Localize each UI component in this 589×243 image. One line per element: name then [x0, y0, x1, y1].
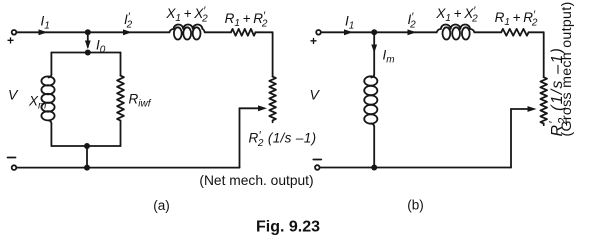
terminal - (b) [315, 165, 320, 170]
inductor magnetizing branch (b) [371, 75, 374, 78]
svg-text:I′2: I′2 [124, 11, 133, 31]
svg-text:I1: I1 [41, 14, 50, 32]
svg-text:R1 + R′2: R1 + R′2 [225, 10, 268, 30]
svg-text:Im: Im [383, 48, 395, 66]
node dot shunt bottom (a) [84, 143, 90, 149]
wire left branch upper (a) [50, 53, 52, 75]
arrow I0 (a) [87, 35, 89, 48]
terminal - (a) [12, 165, 17, 170]
inductor X1+X2' (b) [437, 24, 475, 32]
resistor R1+R2' (a) [231, 29, 256, 36]
minus sign (a) [8, 157, 16, 159]
inductor Xm (a) [49, 75, 52, 78]
svg-text:V: V [310, 87, 321, 103]
svg-text:V: V [8, 87, 19, 103]
svg-text:R1 + R′2: R1 + R′2 [495, 9, 538, 29]
svg-text:+: + [310, 34, 317, 48]
wiper arrow (a) [240, 107, 262, 109]
resistor R2'(1/s-1) (b) [540, 77, 547, 125]
resistor R1+R2' (b) [501, 29, 528, 36]
svg-text:(b): (b) [407, 198, 424, 213]
svg-text:I′2: I′2 [408, 11, 417, 31]
wiper return wire (a) [239, 108, 241, 167]
arrow I2' (a) [123, 29, 132, 35]
terminal + (b) [316, 30, 321, 35]
wire bottom rail (a) [17, 167, 240, 169]
arrow Im (b) [373, 32, 375, 74]
svg-text:Fig. 9.23: Fig. 9.23 [256, 219, 320, 236]
svg-text:R′2 (1/s –1): R′2 (1/s –1) [249, 130, 317, 150]
node dot top (a) [85, 29, 91, 35]
wire left branch lower (a) [50, 124, 52, 147]
arrow I1 (a) [39, 29, 48, 35]
wire right shunt branch lower (a) [120, 121, 122, 146]
wire right shunt branch upper (a) [120, 53, 122, 76]
resistor R2'(1/s-1) (a) [269, 77, 276, 123]
wire top rail (b) [321, 31, 544, 33]
svg-text:X1 + X′2: X1 + X′2 [165, 5, 208, 25]
svg-text:I1: I1 [345, 14, 354, 32]
wire shunt stem (a) [86, 146, 88, 168]
terminal + (a) [12, 30, 17, 35]
wire right drop (a) [272, 32, 274, 76]
wire shunt bottom rail (a) [51, 145, 120, 147]
node dot bottom rail (a) [84, 165, 90, 171]
svg-text:(Net mech. output): (Net mech. output) [199, 173, 313, 188]
arrow I2' (b) [408, 29, 417, 35]
wiper return wire (b) [510, 109, 512, 168]
svg-text:X1 + X′2: X1 + X′2 [435, 5, 478, 25]
node dot shunt (a) [85, 50, 91, 56]
svg-text:Riwf: Riwf [129, 92, 152, 110]
svg-text:Xm: Xm [28, 94, 46, 112]
wiper arrow (b) [511, 108, 531, 110]
wire bottom rail (b) [320, 167, 511, 169]
minus sign (b) [313, 159, 321, 161]
inductor X1+X2' (a) [169, 24, 204, 32]
svg-text:(a): (a) [153, 198, 170, 213]
wire shunt top rail (a) [51, 52, 120, 54]
resistor Riwf (a) [117, 76, 124, 121]
wire magnetizing branch lower (b) [373, 127, 375, 168]
wire right drop (b) [543, 32, 545, 77]
arrow I1 (b) [344, 29, 353, 35]
svg-text:(Gross mech output): (Gross mech output) [559, 1, 575, 136]
node dot bottom (b) [371, 165, 377, 171]
wire top rail (a) [17, 31, 273, 33]
svg-text:+: + [7, 34, 14, 48]
node dot top (b) [371, 29, 377, 35]
